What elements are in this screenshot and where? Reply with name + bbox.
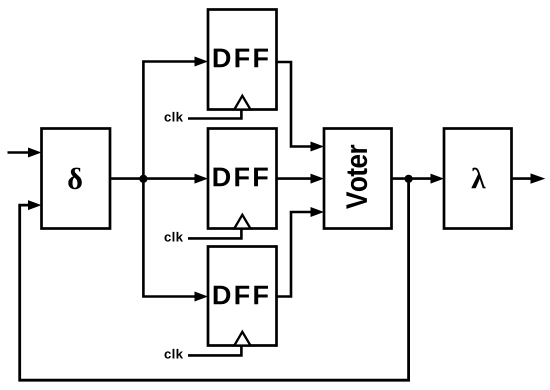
wire: fanout branch into DFF2 (arrowhead) [143,177,196,180]
clk input 3: label and wire to DFF3 clock pin [165,346,242,359]
flip-flop DFF3 (box, label, clock triangle) [208,247,277,346]
wire: primary input into delta [8,148,42,158]
node B: junction dot after voter [405,175,413,183]
wire: DFF1 output to voter [277,62,325,152]
block voter: majority voter (box, rotated label) [324,129,392,229]
wire: DFF2 output to voter [277,174,325,184]
wire: fanout branch into DFF3 (arrowhead) [195,292,209,302]
block lambda (output stage) with label [444,129,512,229]
wire: voter output to lambda [392,174,445,184]
wire: fanout branch into DFF1 (arrowhead) [195,57,209,67]
wire: DFF3 output to voter [277,207,325,297]
wire: delta output to node [110,177,143,180]
wire: lambda output [512,173,546,183]
block U1: delta (input stage) with label [42,129,111,229]
wire: feedback loop [20,179,409,380]
clk input 2: label and wire to DFF2 clock pin [165,229,242,242]
clk input 1: label and wire to DFF1 clock pin [165,110,242,122]
flip-flop DFF2 (box, label, clock triangle) [208,129,277,229]
node A: junction dot after delta [139,175,147,183]
wire: vertical fanout bus [143,62,196,297]
flip-flop DFF1 (box, label, clock triangle) [208,10,277,110]
